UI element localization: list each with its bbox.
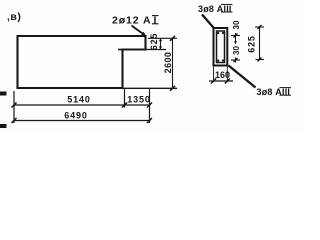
svg-text:625: 625: [149, 33, 159, 50]
callout 2o12 AI bar marks on I: [152, 15, 159, 17]
scan artifact dash upper: [0, 92, 7, 96]
wire 160 right extension: [226, 67, 228, 83]
dimension 2600 line: [170, 36, 175, 91]
section rebar dots: [217, 32, 224, 62]
svg-text:30: 30: [232, 20, 241, 29]
dimension row 6490 line: [12, 118, 153, 123]
svg-text:160: 160: [215, 70, 230, 80]
svg-text:2ø12 A: 2ø12 A: [112, 15, 151, 27]
svg-text:625: 625: [247, 35, 257, 52]
svg-text:I: I: [154, 15, 157, 27]
wire step overshoot: [118, 49, 123, 51]
scan artifact dash lower: [0, 124, 7, 128]
wire right dim extension: [149, 88, 151, 123]
callout 3o8 AIII top bar marks: [221, 3, 233, 5]
svg-text:6490: 6490: [64, 111, 88, 121]
dimension 160 line: [209, 79, 233, 84]
wire step extension line: [147, 49, 167, 51]
wire bottom extension line: [123, 87, 178, 89]
svg-text:,в): ,в): [7, 11, 21, 23]
wire middle dim extension: [124, 88, 126, 108]
svg-text:30: 30: [232, 46, 241, 55]
wire left dim extension: [13, 91, 15, 123]
wire 160 left extension: [213, 67, 215, 83]
dimension 625 section line: [255, 25, 264, 62]
section inner stirrup: [217, 31, 225, 63]
svg-text:2600: 2600: [163, 52, 173, 74]
svg-text:1350: 1350: [127, 94, 151, 104]
section outer outline: [214, 28, 228, 66]
callout 2o12 AI leader: [132, 26, 144, 35]
dimension row 5140/1350 line: [12, 103, 153, 108]
callout 3o8 AIII bottom bar marks: [280, 87, 292, 89]
dimension 30 ticks: [231, 33, 240, 63]
svg-text:5140: 5140: [67, 94, 91, 104]
wire top extension line: [148, 37, 177, 39]
panel outline: [18, 36, 146, 88]
callout 3o8 AIII bottom leader: [229, 66, 256, 88]
dimension 625 line: [159, 38, 162, 49]
callout 3o8 AIII top leader: [202, 15, 215, 29]
